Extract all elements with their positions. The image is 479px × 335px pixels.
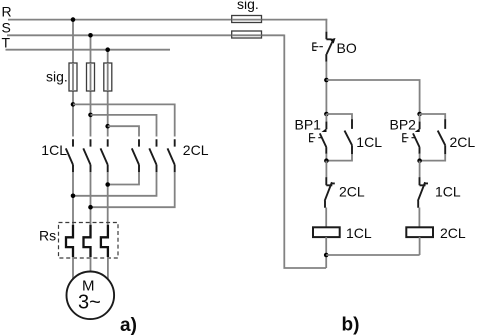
node junction R-L1	[71, 17, 76, 22]
svg-text:sig.: sig.	[46, 69, 68, 85]
wire main branch from R to BO	[325, 19, 327, 33]
fuse control S line	[232, 31, 262, 38]
overload heater element 3	[101, 225, 108, 257]
svg-text:BP1: BP1	[295, 117, 322, 133]
actuator E- of BO	[313, 43, 323, 51]
svg-text:R: R	[2, 4, 12, 20]
wire BP2 top terminal	[419, 114, 421, 122]
actuator E- of BP2	[403, 133, 415, 142]
svg-text:2CL: 2CL	[339, 184, 365, 200]
svg-text:BO: BO	[337, 40, 357, 56]
wire phase S horizontal	[7, 34, 284, 36]
svg-text:2CL: 2CL	[440, 225, 466, 241]
svg-text:2CL: 2CL	[450, 134, 476, 150]
wire BP1 bottom	[325, 154, 327, 161]
wire L3 below contact	[107, 172, 109, 225]
wire vertical L2 from S	[90, 35, 92, 136]
node junction L3 return	[105, 182, 110, 187]
overload heater element 2	[84, 225, 91, 257]
wire crossover top from L3 to 2CL left	[108, 126, 139, 136]
node junction bottom branch1	[324, 253, 329, 258]
wire L2 to motor	[90, 257, 92, 273]
motor M 3-phase circle	[67, 272, 115, 320]
contactor 2CL contact b	[149, 139, 156, 172]
wire interlock to coil branch1	[325, 208, 327, 228]
svg-text:2CL: 2CL	[183, 142, 209, 158]
node junction L1 return	[71, 194, 76, 199]
wire L3 to motor	[107, 257, 109, 279]
wire seal loop top branch2	[420, 114, 446, 120]
fuse F3 sig	[104, 63, 112, 91]
svg-text:T: T	[2, 34, 11, 50]
push button BP1 NO contact	[320, 122, 327, 154]
arrowhead BP2	[415, 128, 420, 132]
node junction L2 tap	[88, 113, 93, 118]
svg-text:1CL: 1CL	[435, 184, 461, 200]
node junction L3 tap	[105, 124, 110, 129]
wire L1 to motor	[72, 257, 74, 280]
contactor 1CL contact b	[83, 139, 90, 172]
push button BP2 NO contact	[413, 122, 420, 154]
svg-text:Rs: Rs	[39, 228, 56, 244]
wire seal loop bottom branch1	[326, 154, 352, 161]
fuse F1 sig	[69, 63, 77, 91]
fuse F2 sig	[87, 63, 95, 91]
svg-text:1CL: 1CL	[41, 142, 67, 158]
svg-text:1CL: 1CL	[356, 134, 382, 150]
contactor 1CL contact a	[66, 139, 73, 172]
node junction L2 return	[88, 205, 93, 210]
wire BO to split node	[325, 62, 327, 114]
wire feed to branch 2	[326, 80, 419, 114]
node junction S-L2	[88, 33, 93, 38]
interlock contact 2CL NC branch1	[325, 177, 335, 208]
wire phase R horizontal	[8, 19, 327, 21]
svg-text:S: S	[2, 20, 11, 36]
wire seal loop bottom branch2	[420, 154, 446, 161]
coil 2CL	[406, 227, 433, 237]
svg-text:3~: 3~	[78, 292, 101, 314]
stop button BO normally closed contact	[326, 32, 333, 62]
svg-text:1CL: 1CL	[346, 225, 372, 241]
wire coil1 to bottom	[325, 237, 327, 268]
arrowhead BO	[330, 38, 336, 44]
node junction T-L3	[105, 47, 110, 52]
wire BP1 node to interlock	[325, 161, 327, 178]
node junction BP2 top	[417, 112, 422, 117]
wire vertical L1 from R	[72, 20, 74, 137]
svg-text:a): a)	[120, 315, 137, 335]
wire crossover top from L1 to 2CL right	[73, 104, 175, 136]
fuse control R line	[232, 16, 262, 23]
wire crossover bottom 2CL left to L3	[108, 172, 139, 185]
wire interlock to coil branch2	[418, 208, 420, 228]
wire crossover bottom 2CL right to L2	[91, 172, 175, 207]
contactor 1CL contact c	[101, 139, 108, 172]
coil 1CL	[313, 227, 340, 237]
wire control left rail from S	[284, 35, 326, 269]
wire BP2 node to interlock	[419, 161, 421, 178]
wire phase T horizontal	[6, 49, 171, 51]
wire crossover top from L2 to 2CL mid	[91, 115, 157, 137]
node junction L1 tap	[71, 102, 76, 107]
overload relay Rs dashed box	[59, 223, 119, 259]
contactor 2CL contact c	[168, 139, 175, 172]
wire crossover bottom 2CL mid to L1	[73, 172, 157, 196]
arrowhead BP1	[322, 128, 327, 132]
svg-text:b): b)	[342, 315, 360, 335]
wire BP1 top terminal	[325, 114, 327, 122]
node junction BP1 top	[324, 112, 329, 117]
wire L2 below contact	[90, 172, 92, 225]
wire BP2 bottom	[419, 154, 421, 161]
interlock contact 1CL NC branch2	[418, 177, 428, 208]
seal-in contact 1CL branch1	[345, 119, 353, 154]
wire bottom tie to branch2	[326, 254, 419, 256]
wire vertical L3 from T	[107, 50, 109, 137]
wire L1 below contact	[72, 172, 74, 225]
overload heater element 1	[66, 225, 73, 257]
svg-text:BP2: BP2	[390, 117, 417, 133]
node junction BP2 bottom	[417, 158, 422, 163]
svg-text:sig.: sig.	[237, 0, 259, 12]
node junction below BO	[324, 78, 329, 83]
wire seal loop top branch1	[326, 114, 352, 120]
wire coil2 to bottom tie	[419, 237, 421, 255]
seal-in contact 2CL branch2	[438, 119, 446, 154]
node junction BP1 bottom	[324, 158, 329, 163]
actuator E- of BP1	[310, 133, 322, 142]
contactor 2CL contact a	[132, 139, 139, 172]
